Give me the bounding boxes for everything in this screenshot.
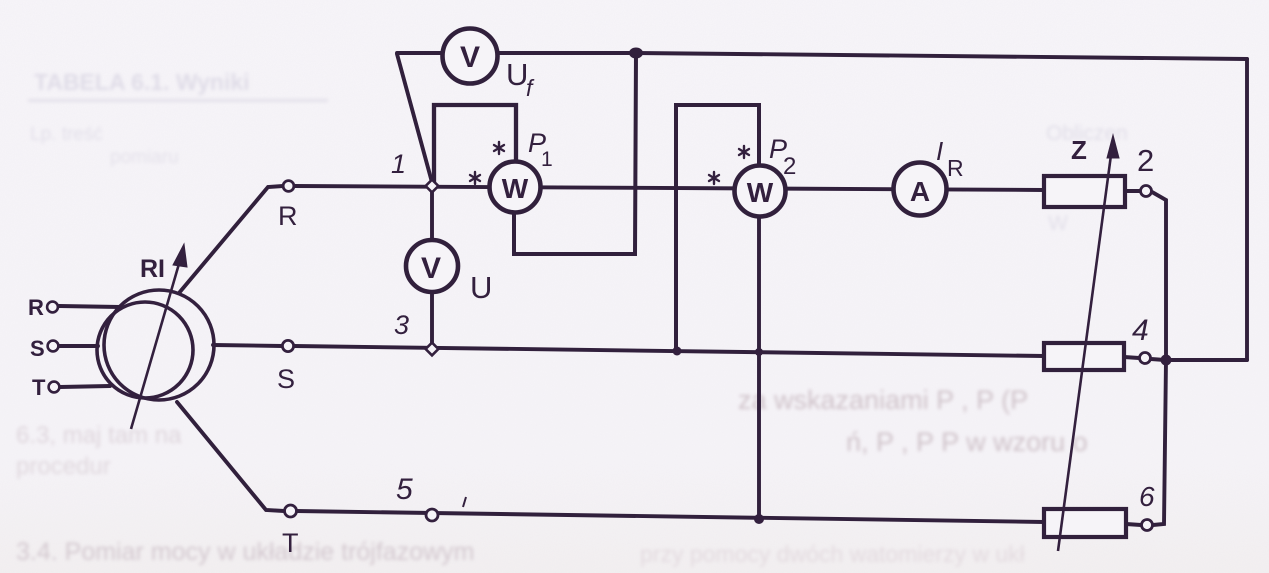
node 1 diamond	[426, 180, 439, 193]
svg-text:S: S	[277, 364, 295, 394]
voltmeter V (Uf)	[443, 29, 498, 84]
ghost bleed-through text bottom-left	[16, 422, 1025, 567]
wire: P2 voltage-coil top loop (down to S rail, up, right, down to W P2 top)	[676, 105, 759, 351]
variac adjustment arrow	[131, 244, 187, 429]
svg-text:ń, P , P P w wzoru o: ń, P , P P w wzoru o	[846, 427, 1088, 457]
terminal S after variac	[282, 340, 293, 351]
svg-text:W: W	[502, 173, 529, 204]
svg-text:R: R	[947, 155, 964, 181]
asterisk P1 line	[470, 172, 480, 184]
wire: terminal 4 to star junction	[1151, 359, 1165, 360]
wire: terminal 2 to right vertical	[1152, 192, 1166, 360]
wire: R input stub to variac	[59, 306, 120, 307]
svg-text:2: 2	[783, 153, 796, 180]
svg-text:Lp. treść: Lp. treść	[30, 124, 103, 145]
wire: star-point row horizontal (junction to right-edge vertical)	[1165, 358, 1247, 362]
svg-text:T: T	[32, 375, 46, 400]
svg-text:6: 6	[1139, 481, 1155, 512]
wire: star vertical down to terminal 6 level	[1153, 360, 1166, 525]
ghost bleed-through text middle-right	[738, 385, 1088, 457]
variac RI inner circle	[97, 302, 193, 398]
wire: S box to terminal 4	[1124, 357, 1139, 358]
junction blob at S rail crossing	[755, 348, 763, 356]
wire: T input stub to variac	[60, 386, 110, 387]
svg-text:2: 2	[1137, 143, 1154, 178]
svg-text:V: V	[421, 252, 441, 285]
svg-text:W: W	[747, 177, 774, 208]
resistor Z (T phase box)	[1044, 509, 1126, 537]
ammeter A	[894, 163, 947, 216]
wattmeter P2	[735, 166, 786, 217]
node 5 terminal	[426, 509, 438, 521]
svg-text:R: R	[278, 201, 298, 231]
wire: S phase rail	[294, 346, 1044, 356]
svg-text:R: R	[28, 295, 44, 320]
wire: node 1 down to voltmeter U and node 3	[430, 186, 434, 349]
svg-text:procedur: procedur	[16, 453, 111, 480]
junction P2 lead to T rail	[754, 514, 764, 524]
wire: variac to terminal S	[213, 345, 282, 346]
ghost bleed-through text top-left	[28, 69, 1128, 235]
asterisk P2 top	[739, 146, 749, 158]
wire: T phase rail	[296, 511, 1044, 522]
svg-text:1: 1	[391, 149, 406, 179]
svg-text:za wskazaniami P , P (P: za wskazaniami P , P (P	[738, 385, 1028, 415]
terminal 4	[1140, 353, 1151, 364]
resistor Z (R phase box)	[1044, 176, 1125, 207]
svg-text:I: I	[936, 136, 943, 166]
svg-text:RI: RI	[140, 255, 165, 283]
svg-text:3: 3	[394, 310, 409, 340]
voltmeter V (U)	[406, 240, 458, 292]
svg-text:pomiaru: pomiaru	[110, 147, 179, 168]
svg-text:A: A	[910, 176, 930, 207]
wire: P1 voltage-coil bottom return (W P1 bottom right and up to top rail)	[514, 53, 636, 254]
wire: P1 voltage-coil top loop (node1 up, right, down to W P1 top)	[434, 105, 516, 186]
terminal T after variac	[285, 505, 297, 517]
resistor Z (S phase box)	[1044, 343, 1124, 370]
wire: variac to terminal T (diagonal)	[177, 402, 284, 511]
wire: variac to terminal R (diagonal)	[179, 186, 283, 293]
junction P2 coil to S rail	[673, 347, 682, 356]
terminal R after variac	[283, 181, 294, 192]
junction on top rail	[629, 48, 643, 59]
terminal S input	[48, 341, 59, 352]
terminal T input	[49, 382, 60, 393]
node 3 diamond	[426, 343, 439, 356]
asterisk P2 line	[709, 172, 719, 184]
wire: S input stub to variac	[59, 344, 98, 348]
wire: slant from top rail down to node 1	[397, 54, 433, 186]
stray tick above T rail	[463, 497, 466, 507]
terminal 6	[1142, 520, 1153, 531]
svg-text:5: 5	[396, 473, 413, 506]
wire: P2 bottom lead down to T rail	[757, 217, 761, 519]
svg-text:T: T	[282, 528, 299, 558]
wattmeter P1	[490, 162, 541, 213]
svg-text:U: U	[470, 270, 492, 305]
asterisk P1 top	[494, 142, 504, 154]
variac RI outer circle	[104, 290, 214, 400]
wire: T box to terminal 6	[1126, 524, 1141, 525]
svg-text:V: V	[460, 41, 480, 74]
ganged adjustment line through Z boxes with arrow	[1058, 135, 1119, 551]
svg-text:6.3, maj tam na: 6.3, maj tam na	[16, 422, 182, 449]
wire: top rail from slant start to right corner	[397, 53, 1247, 59]
svg-text:4: 4	[1132, 314, 1149, 347]
terminal 2	[1141, 186, 1152, 197]
svg-text:TABELA 6.1. Wyniki: TABELA 6.1. Wyniki	[34, 69, 250, 95]
svg-text:S: S	[30, 336, 45, 361]
wire: right-edge vertical from top rail corner down to star-point row	[1245, 59, 1249, 360]
svg-text:1: 1	[541, 148, 553, 171]
wire: R phase rail	[294, 186, 1044, 190]
junction star point	[1161, 355, 1172, 366]
wire: R box to terminal 2	[1125, 189, 1140, 193]
svg-text:W: W	[1048, 212, 1068, 235]
svg-text:3.4. Pomiar mocy w układzie: 3.4. Pomiar mocy w układzie trójfazowym	[16, 538, 474, 566]
svg-text:przy pomocy dwóch watomierzy w: przy pomocy dwóch watomierzy w ukł	[640, 541, 1025, 567]
svg-text:Z: Z	[1071, 135, 1087, 165]
terminal R input	[47, 302, 58, 313]
